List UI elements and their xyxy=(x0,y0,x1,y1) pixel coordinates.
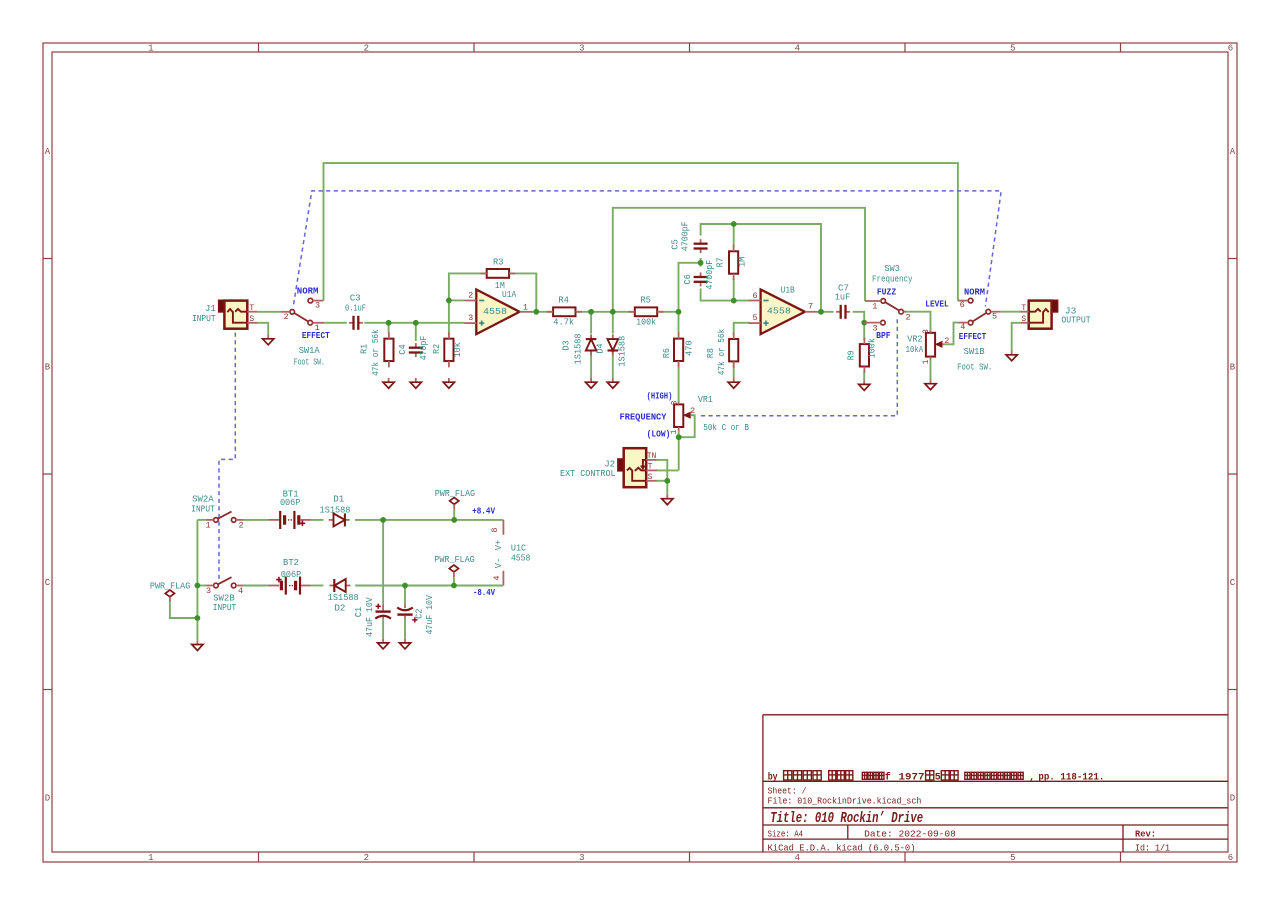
svg-text:INPUT: INPUT xyxy=(192,313,216,324)
wire C5 feedback rail xyxy=(701,224,821,312)
svg-text:D: D xyxy=(1230,794,1235,804)
svg-text:1: 1 xyxy=(872,302,877,312)
svg-text:Date: 2022-09-08: Date: 2022-09-08 xyxy=(864,828,956,839)
svg-text:6: 6 xyxy=(1228,44,1233,54)
resistor R2 xyxy=(444,339,453,361)
wire C4 tap xyxy=(415,323,417,341)
svg-text:6: 6 xyxy=(960,300,965,310)
svg-text:8: 8 xyxy=(490,527,500,532)
svg-text:D2: D2 xyxy=(334,603,345,614)
wire U1B pin5 to R8 xyxy=(734,323,750,335)
wire C2 branch xyxy=(404,586,406,605)
capacitor C3 xyxy=(349,322,354,324)
svg-text:S: S xyxy=(1021,315,1026,324)
svg-text:R2: R2 xyxy=(431,344,442,354)
ground VR2 xyxy=(930,380,932,384)
wire C1 to ground xyxy=(382,619,384,639)
svg-text:C: C xyxy=(45,578,51,588)
svg-text:4: 4 xyxy=(795,44,800,54)
ground D4 xyxy=(612,378,614,382)
svg-text:2: 2 xyxy=(283,312,288,322)
diode D1 xyxy=(329,519,334,521)
svg-text:2: 2 xyxy=(944,336,949,346)
capacitor C2 electrolytic xyxy=(404,605,406,609)
svg-text:T: T xyxy=(648,462,653,471)
svg-text:1: 1 xyxy=(523,302,528,312)
resistor R7 xyxy=(729,251,738,273)
wire NORM net top rail xyxy=(324,163,958,301)
wire U1A out xyxy=(531,311,553,313)
svg-text:C2: C2 xyxy=(413,609,424,620)
resistor R8 xyxy=(729,339,738,361)
wire D4 bottom xyxy=(612,351,614,379)
svg-text:0.1uF: 0.1uF xyxy=(345,302,366,313)
svg-text:S: S xyxy=(648,473,653,482)
svg-text:SW3: SW3 xyxy=(884,263,900,274)
title block border xyxy=(762,715,764,852)
wire C2 to ground xyxy=(404,619,406,639)
wire R4 to R5 xyxy=(576,311,635,313)
wire C1 branch xyxy=(382,520,384,605)
wire BT2 to D2 xyxy=(311,585,324,587)
svg-text:3: 3 xyxy=(922,329,931,334)
junction dots xyxy=(386,320,392,326)
wire D2 to U1C V- xyxy=(355,585,503,587)
svg-text:4: 4 xyxy=(492,575,502,580)
svg-text:470: 470 xyxy=(683,340,694,356)
svg-text:f: f xyxy=(885,771,891,783)
svg-text:1: 1 xyxy=(148,44,153,54)
resistor R1 xyxy=(384,339,393,361)
svg-text:D3: D3 xyxy=(561,340,572,350)
capacitor C5 xyxy=(700,239,702,244)
svg-text:T: T xyxy=(1021,304,1026,313)
svg-text:3: 3 xyxy=(468,313,473,323)
svg-text:4: 4 xyxy=(795,853,800,863)
svg-text:VR1: VR1 xyxy=(698,394,713,405)
capacitor C6 xyxy=(700,272,702,277)
ground J3 xyxy=(1011,351,1013,355)
svg-text:R1: R1 xyxy=(359,344,370,354)
svg-text:BPF: BPF xyxy=(876,330,891,341)
svg-text:Rev:: Rev: xyxy=(1135,828,1156,839)
wire SW1A to C3 xyxy=(324,322,347,324)
wire R7 top xyxy=(733,224,735,247)
ground C4 xyxy=(415,378,417,382)
svg-text:A: A xyxy=(1230,147,1236,157)
svg-text:NORM: NORM xyxy=(964,286,985,297)
svg-text:LEVEL: LEVEL xyxy=(925,298,949,309)
wire R3 right xyxy=(509,273,536,311)
svg-text:,: , xyxy=(1029,772,1035,783)
svg-text:R7: R7 xyxy=(714,257,725,267)
wire SW2B pin3 xyxy=(197,585,206,587)
wire J2 S to ground xyxy=(666,481,668,495)
wire VR1 wiper loop xyxy=(679,415,695,437)
svg-text:Frequency: Frequency xyxy=(872,274,913,285)
wire J3 S to ground xyxy=(1012,323,1021,351)
power flag -8.4V xyxy=(449,565,458,572)
svg-text:A: A xyxy=(45,147,51,157)
svg-text:pp. 118-121.: pp. 118-121. xyxy=(1038,772,1104,783)
capacitor C4 xyxy=(415,343,417,348)
wire VR2 top xyxy=(905,312,931,331)
diode D3 xyxy=(590,334,592,339)
svg-text:(HIGH): (HIGH) xyxy=(647,390,673,401)
switch SW1B xyxy=(986,309,991,314)
capacitor C7 xyxy=(836,311,841,313)
wire U1B out to C7 xyxy=(817,311,834,313)
svg-text:4558: 4558 xyxy=(767,306,791,317)
svg-text:C1: C1 xyxy=(353,606,364,617)
svg-text:U1B: U1B xyxy=(781,285,796,296)
svg-text:5: 5 xyxy=(992,311,997,321)
svg-text:1S1588: 1S1588 xyxy=(328,592,359,603)
wire R9 bottom xyxy=(863,371,865,380)
dashed link J1-SW2 xyxy=(219,333,235,581)
jack J3 xyxy=(1051,300,1058,312)
wire R2 column xyxy=(448,300,450,334)
wire SW1B to J3 T xyxy=(1001,311,1021,313)
svg-text:PWR_FLAG: PWR_FLAG xyxy=(435,488,475,499)
wire R1 tap xyxy=(388,323,390,334)
svg-text:U1A: U1A xyxy=(502,289,517,300)
ground J2 xyxy=(666,495,668,499)
switch SW1A xyxy=(290,310,295,315)
wire C5 bottom xyxy=(700,258,702,263)
svg-text:EFFECT: EFFECT xyxy=(959,331,987,342)
wire VR1 node to J2 T xyxy=(657,469,679,471)
wire VR1 bottom node xyxy=(678,431,680,471)
pin U1C 8 V+ xyxy=(502,520,504,535)
svg-text:OUTPUT: OUTPUT xyxy=(1061,315,1091,326)
svg-text:2: 2 xyxy=(690,406,695,416)
switch SW2B xyxy=(214,583,219,588)
svg-text:PWR_FLAG: PWR_FLAG xyxy=(434,554,474,565)
svg-text:3: 3 xyxy=(579,853,584,863)
svg-text:INPUT: INPUT xyxy=(191,504,215,515)
svg-text:1: 1 xyxy=(670,429,679,434)
svg-text:R6: R6 xyxy=(661,348,672,358)
resistor R5 xyxy=(635,307,657,316)
svg-text:B: B xyxy=(1230,363,1236,373)
svg-text:KiCad E.D.A. kicad (6.0.5-0): KiCad E.D.A. kicad (6.0.5-0) xyxy=(768,842,916,853)
battery BT1 xyxy=(269,519,280,521)
svg-text:5: 5 xyxy=(753,313,758,323)
svg-text:Id: 1/1: Id: 1/1 xyxy=(1135,842,1170,853)
svg-text:1M: 1M xyxy=(736,257,747,268)
wire J1 T to SW1A xyxy=(257,311,281,313)
svg-text:4.7k: 4.7k xyxy=(553,317,574,328)
svg-text:47uF 10V: 47uF 10V xyxy=(424,595,435,635)
svg-text:D4: D4 xyxy=(595,343,606,353)
svg-text:FREQUENCY: FREQUENCY xyxy=(620,412,667,423)
svg-text:VR2: VR2 xyxy=(907,333,922,344)
wire BT1 to D1 xyxy=(311,519,324,521)
svg-text:47k or 56k: 47k or 56k xyxy=(716,328,727,375)
svg-text:B: B xyxy=(45,363,51,373)
ground R2 xyxy=(448,378,450,382)
svg-text:D1: D1 xyxy=(333,493,344,504)
wire FUZZ net rail xyxy=(613,208,865,312)
wire VR2 bottom xyxy=(930,360,932,379)
wire J2 S xyxy=(657,480,668,482)
op-amp U1B xyxy=(761,290,805,335)
svg-text:V+: V+ xyxy=(494,540,504,551)
svg-text:PWR_FLAG: PWR_FLAG xyxy=(150,580,190,591)
svg-text:FUZZ: FUZZ xyxy=(877,286,897,297)
svg-text:4558: 4558 xyxy=(483,306,507,317)
ground left rail xyxy=(196,640,198,644)
wire D1 to U1C V+ xyxy=(355,519,503,521)
svg-text:4558: 4558 xyxy=(511,552,531,563)
wire J2 TN to S xyxy=(657,460,668,481)
svg-text:S: S xyxy=(249,315,254,324)
capacitor C1 electrolytic xyxy=(382,605,384,611)
svg-text:006P: 006P xyxy=(281,569,302,580)
svg-text:SW1B: SW1B xyxy=(964,346,985,357)
ground J1 xyxy=(267,335,269,339)
svg-text:BT2: BT2 xyxy=(283,557,299,568)
svg-text:2: 2 xyxy=(238,520,243,530)
ground R9 xyxy=(863,380,865,384)
svg-text:R5: R5 xyxy=(640,294,651,305)
svg-text:(LOW): (LOW) xyxy=(647,428,671,439)
wire SW2B to BT2 xyxy=(243,585,268,587)
svg-text:1: 1 xyxy=(148,853,153,863)
svg-text:Foot SW.: Foot SW. xyxy=(957,361,992,372)
svg-text:3: 3 xyxy=(206,586,211,596)
resistor R6 xyxy=(674,339,683,361)
wire D3 bottom xyxy=(590,351,592,379)
svg-text:1: 1 xyxy=(205,520,210,530)
dashed link VR1-VR2 xyxy=(701,318,897,416)
ground C1 xyxy=(382,639,384,643)
svg-text:INPUT: INPUT xyxy=(213,602,237,613)
svg-text:1977: 1977 xyxy=(899,772,925,783)
wire D4 top xyxy=(612,312,614,334)
svg-text:R3: R3 xyxy=(493,257,504,268)
wire D3 top xyxy=(590,312,592,334)
ground R1 xyxy=(388,378,390,382)
battery BT2 xyxy=(269,585,280,587)
wire C6 top xyxy=(700,263,702,267)
wire node down to R6 xyxy=(678,312,680,334)
svg-text:Title: 010 Rockin’ Drive: Title: 010 Rockin’ Drive xyxy=(770,811,923,827)
pin U1C 4 V- xyxy=(502,571,504,586)
svg-text:EXT CONTROL: EXT CONTROL xyxy=(560,468,616,479)
svg-text:3: 3 xyxy=(579,44,584,54)
svg-text:3: 3 xyxy=(315,301,320,311)
power flag +8.4V xyxy=(450,498,459,505)
svg-text:4: 4 xyxy=(238,586,243,596)
svg-text:T: T xyxy=(249,304,254,313)
svg-text:TN: TN xyxy=(647,452,657,461)
svg-text:7: 7 xyxy=(808,302,813,312)
svg-text:5: 5 xyxy=(1010,853,1015,863)
svg-text:1: 1 xyxy=(922,359,931,364)
svg-text:10k: 10k xyxy=(452,342,463,357)
svg-text:File: 010_RockinDrive.kicad_sc: File: 010_RockinDrive.kicad_sch xyxy=(768,796,922,807)
svg-text:Foot SW.: Foot SW. xyxy=(294,356,325,367)
wire C7 to BPF node xyxy=(853,312,865,323)
svg-text:47uF 10V: 47uF 10V xyxy=(364,597,375,637)
jack J2 xyxy=(618,459,624,471)
jack J1 xyxy=(219,300,226,312)
svg-text:470pF: 470pF xyxy=(418,336,429,361)
svg-text:SW1A: SW1A xyxy=(299,345,320,356)
svg-text:10kA: 10kA xyxy=(906,344,924,355)
svg-text:6: 6 xyxy=(753,291,758,301)
svg-text:4700pF: 4700pF xyxy=(680,221,691,251)
op-amp U1A xyxy=(476,290,519,335)
svg-text:NORM: NORM xyxy=(297,286,319,297)
svg-text:+8.4V: +8.4V xyxy=(472,506,495,517)
wire C6 bottom to pin6 xyxy=(701,289,750,301)
svg-text:5: 5 xyxy=(935,772,941,783)
svg-text:1S1588: 1S1588 xyxy=(616,336,627,367)
svg-text:2: 2 xyxy=(364,853,369,863)
svg-text:1S1588: 1S1588 xyxy=(572,333,583,364)
wire R3 left xyxy=(449,273,487,300)
svg-text:EFFECT: EFFECT xyxy=(302,330,330,341)
power flag GND xyxy=(165,590,174,597)
wire R8 bottom xyxy=(733,356,735,378)
potentiometer VR2 xyxy=(926,333,935,357)
potentiometer VR1 xyxy=(674,404,683,427)
svg-text:6: 6 xyxy=(1228,853,1233,863)
diode D4 xyxy=(612,334,614,339)
svg-text:006P: 006P xyxy=(280,497,301,508)
wire SW2A pin1 xyxy=(197,519,206,521)
svg-text:D: D xyxy=(45,794,50,804)
svg-text:1uF: 1uF xyxy=(835,292,851,303)
svg-text:1S1588: 1S1588 xyxy=(320,505,351,516)
svg-text:R9: R9 xyxy=(845,350,856,360)
wire J1 S to ground xyxy=(257,323,268,335)
svg-text:2: 2 xyxy=(905,313,910,323)
svg-text:50k C or B: 50k C or B xyxy=(703,422,749,433)
wire SW2A to BT1 xyxy=(243,519,268,521)
wire R5 to node xyxy=(658,311,679,313)
svg-text:Size: A4: Size: A4 xyxy=(768,828,804,839)
wire C3 to U1A pin3 xyxy=(364,322,464,324)
switch SW3 xyxy=(881,299,886,304)
svg-text:2: 2 xyxy=(364,44,369,54)
svg-text:R8: R8 xyxy=(705,348,716,358)
diode D2 xyxy=(330,585,335,587)
wire VR2 wiper to SW1B xyxy=(944,323,959,345)
dashed link SW1A-SW1B xyxy=(294,191,1002,307)
ground D3 xyxy=(590,378,592,382)
svg-text:C: C xyxy=(1230,578,1236,588)
wire node up to C5C6 xyxy=(679,263,701,312)
switch SW2A xyxy=(214,518,219,523)
svg-text:by: by xyxy=(768,771,778,783)
ground R8 xyxy=(733,378,735,382)
ground C2 xyxy=(404,639,406,643)
resistor R9 xyxy=(860,344,869,366)
svg-text:C6: C6 xyxy=(682,274,693,285)
svg-text:R4: R4 xyxy=(558,294,569,305)
svg-text:V-: V- xyxy=(494,558,504,569)
wire left power rail xyxy=(196,520,198,640)
svg-text:2: 2 xyxy=(468,291,473,301)
resistor R4 xyxy=(553,307,575,316)
wire R6 to VR1 xyxy=(678,356,680,401)
resistor R3 xyxy=(487,269,509,278)
svg-text:-8.4V: -8.4V xyxy=(473,587,495,598)
svg-text:5: 5 xyxy=(1010,44,1015,54)
svg-text:C4: C4 xyxy=(397,344,408,355)
svg-text:47k or 56k: 47k or 56k xyxy=(370,329,381,376)
svg-text:100k: 100k xyxy=(636,317,656,328)
wire R7 bottom xyxy=(733,278,735,301)
wire R9 top xyxy=(863,323,865,340)
